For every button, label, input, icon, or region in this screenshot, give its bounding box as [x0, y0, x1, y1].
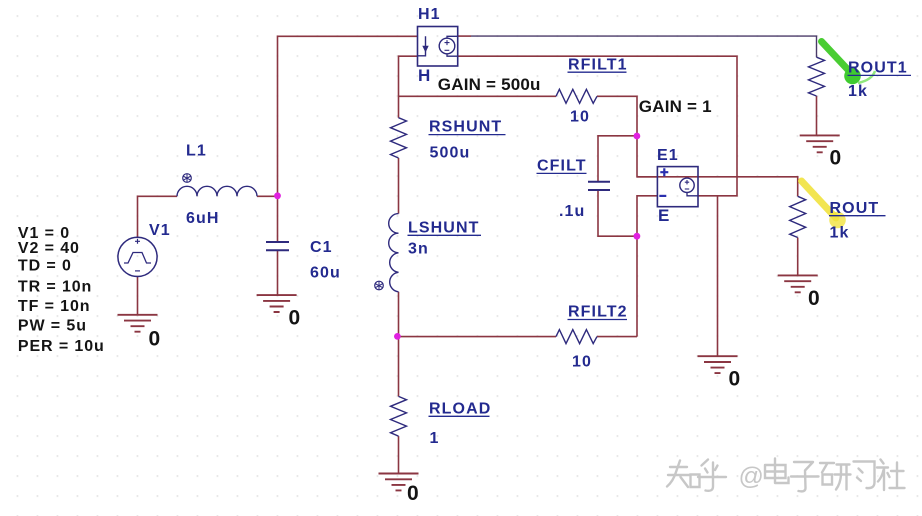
svg-text:GAIN = 500u: GAIN = 500u: [438, 75, 541, 94]
svg-text:0: 0: [407, 482, 419, 505]
svg-text:H: H: [418, 66, 431, 85]
svg-text:6uH: 6uH: [186, 210, 220, 227]
svg-text:PER = 10u: PER = 10u: [18, 338, 105, 355]
svg-text:0: 0: [729, 368, 741, 391]
svg-text:GAIN = 1: GAIN = 1: [639, 97, 712, 116]
svg-text:RSHUNT: RSHUNT: [429, 118, 502, 135]
svg-text:RFILT1: RFILT1: [568, 56, 628, 73]
svg-text:L1: L1: [186, 143, 207, 160]
svg-text:ROUT: ROUT: [830, 200, 880, 217]
svg-text:TD = 0: TD = 0: [18, 257, 72, 274]
svg-text:0: 0: [808, 287, 820, 310]
svg-text:0: 0: [149, 328, 161, 351]
svg-text:1k: 1k: [848, 83, 868, 100]
svg-text:E1: E1: [657, 147, 679, 164]
svg-text:E: E: [658, 206, 670, 225]
svg-text:10: 10: [570, 109, 590, 126]
svg-text:ROUT1: ROUT1: [848, 59, 908, 76]
svg-text:60u: 60u: [310, 264, 341, 281]
svg-text:500u: 500u: [430, 144, 471, 161]
svg-text:0: 0: [289, 307, 301, 330]
svg-text:.1u: .1u: [559, 203, 585, 220]
svg-text:LSHUNT: LSHUNT: [408, 219, 479, 236]
svg-text:H1: H1: [418, 6, 441, 23]
svg-text:V1: V1: [149, 222, 171, 239]
svg-text:V2 = 40: V2 = 40: [18, 240, 80, 257]
svg-text:1: 1: [430, 430, 440, 447]
svg-text:TR = 10n: TR = 10n: [18, 278, 92, 295]
svg-text:C1: C1: [310, 239, 333, 256]
svg-text:TF = 10n: TF = 10n: [18, 298, 91, 315]
svg-text:0: 0: [830, 147, 842, 170]
svg-text:10: 10: [572, 353, 592, 370]
svg-text:RLOAD: RLOAD: [429, 400, 491, 417]
svg-text:1k: 1k: [830, 224, 850, 241]
svg-text:3n: 3n: [408, 241, 429, 258]
svg-text:CFILT: CFILT: [537, 158, 587, 175]
svg-text:PW = 5u: PW = 5u: [18, 317, 87, 334]
svg-text:@: @: [739, 463, 764, 491]
svg-text:RFILT2: RFILT2: [568, 304, 628, 321]
